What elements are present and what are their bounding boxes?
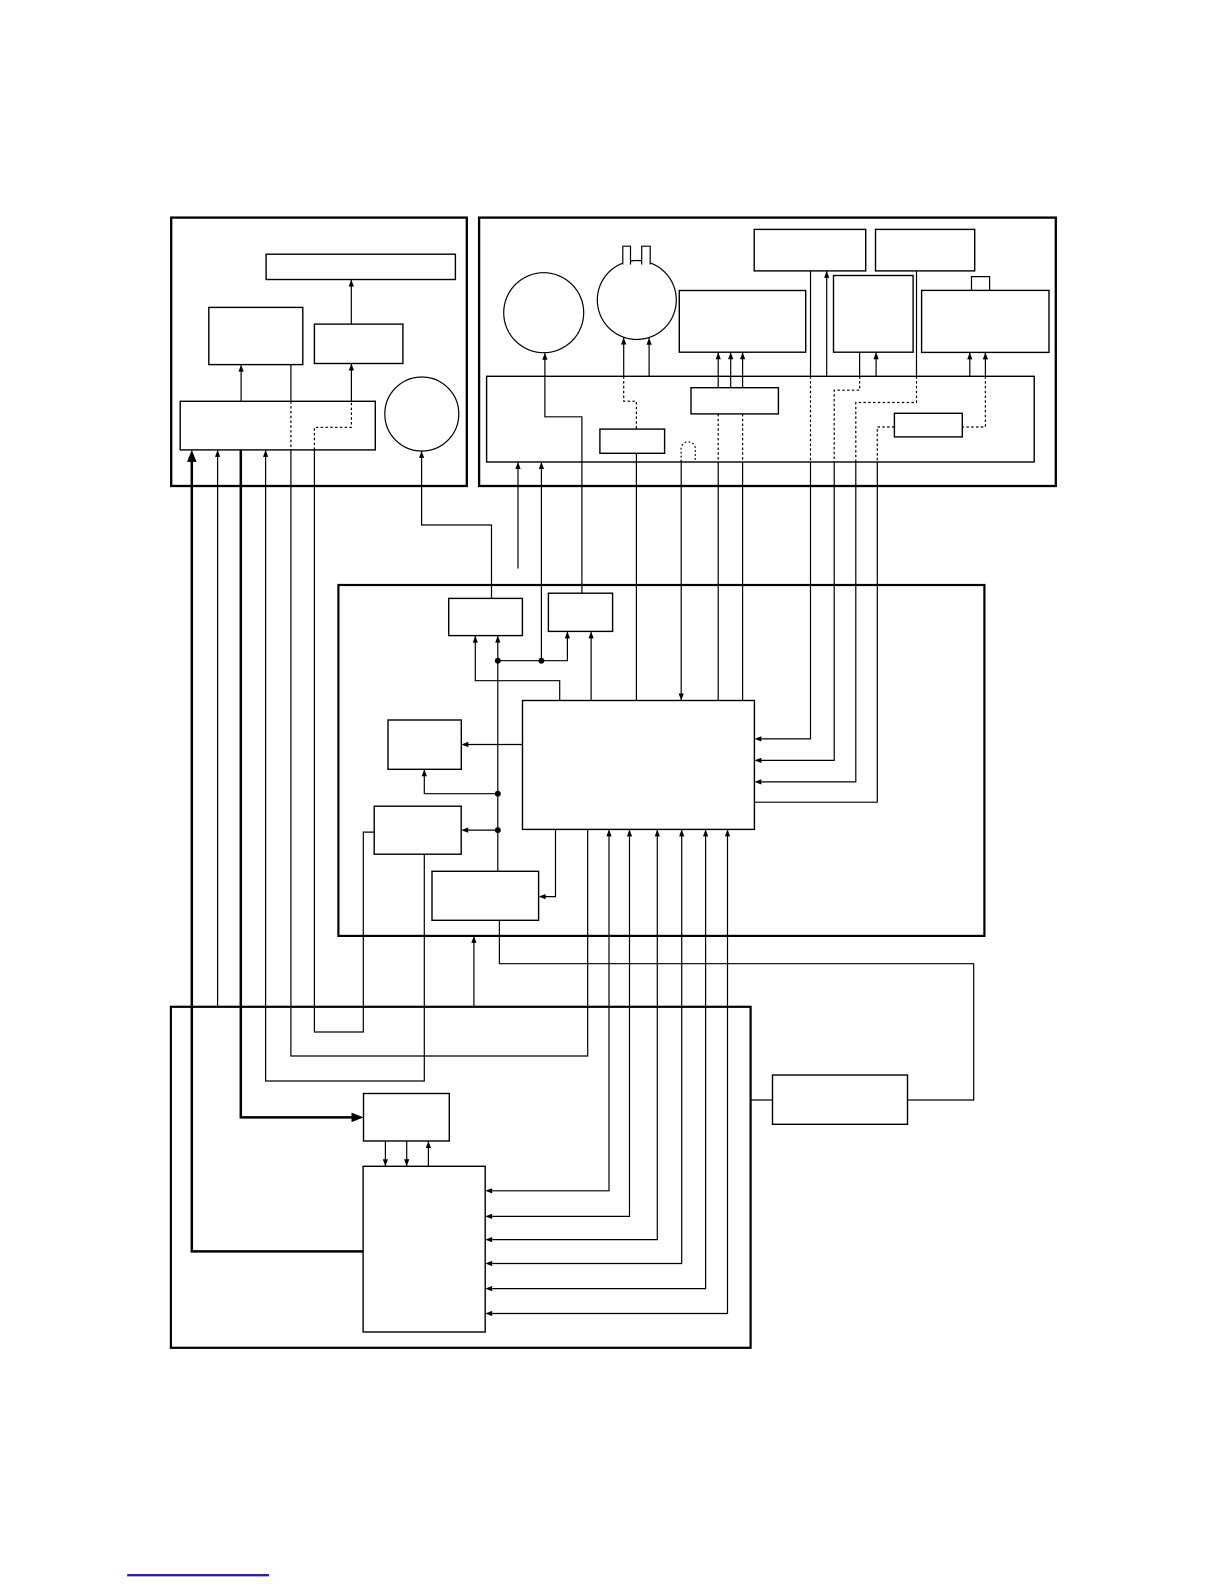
- wire J0 to M2 with arrow: [498, 631, 568, 660]
- arrow bar to B4: [875, 352, 877, 376]
- wire B9 down to block M-C top: [635, 453, 637, 700]
- wire bottom-edge-D to A4 arrow: [217, 450, 219, 1007]
- enclosure box B (top-right section): [479, 218, 1056, 486]
- block B7 (top rect 2): [876, 229, 975, 271]
- dashed wire B11 to M-C right edge: [877, 427, 894, 462]
- wire M-C to M5 with arrow: [545, 829, 556, 896]
- bus wire M-C to D2 no.1: [492, 829, 609, 1190]
- wire J2 to M3 with arrow: [424, 769, 498, 793]
- arrow D2 to D1: [427, 1141, 429, 1166]
- junction dot J3: [495, 827, 501, 833]
- bar B8 (wide lower rectangle): [487, 376, 1035, 462]
- motor symbol B2 (circle with two prongs): [597, 261, 676, 340]
- wire M1 to circle A5 with arrow: [422, 451, 492, 599]
- block M5: [432, 871, 539, 920]
- arrow D1 to D2 no.2: [406, 1141, 408, 1166]
- wire bar to motor B2 arrow 1: [623, 338, 625, 377]
- dashed jog inside A4 up to A3 with arrow: [314, 401, 351, 450]
- block M-C (central large): [523, 701, 755, 830]
- circle A5: [385, 377, 459, 451]
- junction dot J1: [538, 658, 544, 664]
- bus wire M-C to D2 no.5: [492, 829, 705, 1288]
- wire junction J1 up into bar bottom with arrow: [540, 462, 542, 661]
- dotted loop on bar bottom: [681, 442, 695, 462]
- stub arrow into bar bottom (dangling): [517, 462, 519, 569]
- circle B1: [504, 273, 584, 353]
- wire B7 down to M-C right edge with arrow: [916, 271, 918, 376]
- thick wire D2 to A4 with arrow: [192, 461, 363, 1252]
- wire J3 to M4 with arrow: [467, 829, 498, 831]
- enclosure box D (bottom section): [171, 1007, 751, 1348]
- block M4: [374, 806, 461, 854]
- junction dot J2: [495, 791, 501, 797]
- wire box D to D3: [751, 1099, 773, 1101]
- block B4 (middle): [834, 276, 914, 353]
- block B10 (small, in bar left): [691, 388, 778, 414]
- wire B10 down to M-C top (left): [717, 414, 719, 462]
- block D1: [364, 1094, 450, 1142]
- dashed wire from bar top to B9: [624, 376, 637, 429]
- block A1 (long top rectangle): [266, 254, 455, 279]
- wire B6 down to M-C right edge with arrow: [810, 271, 812, 376]
- block B11 (small, in bar right): [894, 413, 962, 437]
- wire loop down to M-C top with down arrow: [680, 462, 682, 701]
- bus wire M-C to D2 no.6: [492, 829, 727, 1313]
- wire bar to motor B2 arrow 2: [648, 338, 650, 377]
- arrow D1 to D2 no.1: [384, 1141, 386, 1166]
- block B6 (top rect 1): [754, 229, 866, 271]
- arrow B10 to B3 no.3: [742, 352, 744, 388]
- wire M4 left to A4 via box D (dashed inside A4) to A3: [314, 450, 374, 1032]
- arrow into box C bottom edge: [473, 936, 475, 1007]
- block D2 (large): [363, 1166, 485, 1332]
- step wire bar to circle B1 with arrow, down to M2: [545, 353, 582, 594]
- block B5 (right large with tab): [922, 290, 1049, 352]
- wire M5 to block D3 via right channel: [499, 920, 973, 1100]
- wire B10 down to M-C top (right): [742, 414, 744, 462]
- bus wire M-C to D2 no.2: [492, 829, 629, 1216]
- block D3 (right, outside box D): [773, 1075, 908, 1124]
- block M3: [388, 720, 461, 769]
- wire M-C top to M2 with arrow: [590, 631, 592, 700]
- wire M-C bottom to A2: [291, 450, 588, 1056]
- wire from A2 down through A4 (dashed inside): [290, 365, 292, 402]
- thick wire A4 to D1 with arrow: [241, 450, 353, 1118]
- enclosure box A (top-left section): [171, 218, 467, 486]
- bus wire M-C to D2 no.4: [492, 829, 682, 1263]
- block A3: [314, 324, 403, 363]
- arrow bar to B6: [826, 271, 828, 376]
- block M2: [548, 593, 612, 631]
- enclosure box C (middle section): [338, 585, 984, 936]
- wire M-C top to M1 with arrow: [475, 636, 559, 701]
- wire B4 down to M-C right edge with arrow: [859, 352, 861, 376]
- blue footer rule: [127, 1574, 269, 1576]
- wire A3 to A1 with arrow: [350, 280, 352, 325]
- arrow B10 to B3 no.1: [717, 352, 719, 388]
- arrow bar to B5 no.1: [969, 352, 971, 376]
- arrow bar to B5 no.2 with dashed link to B11: [984, 352, 986, 376]
- bus wire with junctions to M1 arrow: [497, 636, 499, 872]
- block A4 (wide bottom rectangle): [180, 401, 375, 450]
- block A2: [209, 307, 303, 364]
- block B3 (left large): [679, 291, 805, 353]
- block M1: [449, 598, 523, 635]
- wire M4 bottom to A4 with arrow: [266, 450, 425, 1081]
- arrow B10 to B3 no.2: [730, 352, 732, 388]
- block B9 (small, in bar): [600, 429, 665, 453]
- wire M-C to M3 with arrow: [467, 744, 522, 746]
- junction dot J0: [495, 658, 501, 664]
- wire A4 to A2 with arrow: [240, 365, 242, 402]
- bus wire M-C to D2 no.3: [492, 829, 657, 1239]
